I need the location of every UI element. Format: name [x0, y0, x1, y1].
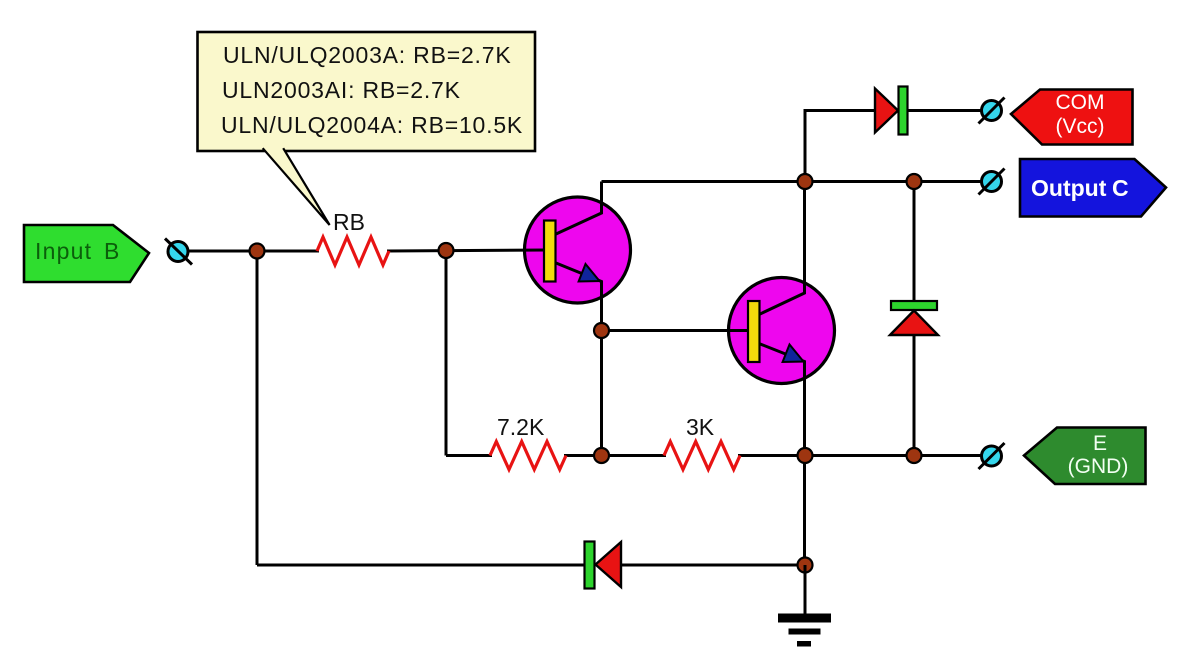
diode D2 cathode bar (output clamp zener): [891, 301, 937, 310]
junction node at input: [250, 244, 265, 259]
resistor RB zigzag: [317, 237, 389, 265]
svg-text:RB: RB: [333, 209, 365, 235]
wire COM branch riser and rail to diode D1: [805, 111, 874, 182]
junction node GND rail at 7.2K/3K: [594, 448, 609, 463]
flag label COM (Vcc): [1011, 90, 1133, 145]
diode D1 cathode bar: [899, 87, 908, 135]
wire input node vertical drop to bottom rail: [256, 251, 259, 565]
flag label Output C: [1020, 159, 1166, 217]
flag label Input B: [24, 225, 149, 282]
wire Q1 emitter down through Q2 base node to GND resistor rail: [556, 263, 602, 456]
transistor Q1 (Darlington input BJT): [525, 197, 631, 303]
svg-text:(Vcc): (Vcc): [1056, 115, 1105, 138]
junction node GND rail / zener bottom: [907, 448, 922, 463]
svg-text:B: B: [104, 238, 119, 264]
note callout tail: [263, 148, 330, 225]
diode D1 anode triangle (COM clamp diode): [875, 89, 898, 133]
transistor Q2 (Darlington output BJT): [729, 278, 835, 384]
junction node bottom rail / ground: [798, 558, 813, 573]
svg-text:ULN/ULQ2003A: RB=2.7K: ULN/ULQ2003A: RB=2.7K: [223, 42, 511, 68]
ground: [778, 565, 831, 647]
wire zener D2 branch upper: [913, 182, 916, 304]
wire GND rail segment 2 (between 7.2K and 3K): [564, 454, 666, 457]
wire input rail left segment: [189, 250, 319, 253]
wire GND rail segment 1: [446, 454, 492, 457]
wire Q1 collector up to output rail: [556, 182, 602, 235]
wire GND rail segment 3 (3K to E terminal): [738, 454, 982, 457]
wire zener D2 branch lower: [913, 334, 916, 456]
wire output rail (collector bus to Output terminal): [602, 180, 982, 183]
diode D3 cathode bar (input clamp diode): [585, 542, 595, 589]
svg-text:COM: COM: [1056, 91, 1105, 114]
terminal pin COM: [979, 98, 1005, 124]
junction node output rail / zener riser: [907, 174, 922, 189]
terminal pin Input B: [165, 239, 192, 265]
svg-text:ULN/ULQ2004A: RB=10.5K: ULN/ULQ2004A: RB=10.5K: [221, 112, 523, 138]
terminal pin Output C: [979, 169, 1005, 195]
resistor R3 3K zigzag: [664, 442, 740, 470]
svg-text:(GND): (GND): [1068, 455, 1129, 478]
diode D3 anode triangle: [596, 542, 622, 587]
diode D2 anode triangle: [890, 311, 938, 336]
flag label E (GND): [1024, 428, 1146, 485]
wire Q2 collector riser: [759, 182, 805, 315]
transistor Q1 emitter arrowhead: [579, 264, 600, 282]
svg-text:C: C: [1112, 175, 1129, 201]
svg-text:ULN2003AI: RB=2.7K: ULN2003AI: RB=2.7K: [222, 77, 461, 103]
wire RB output node vertical drop to 7.2K rail: [445, 251, 448, 456]
junction node GND rail / Q2 emitter: [798, 448, 813, 463]
wire Q2 base from node: [602, 329, 751, 332]
wire bottom rail left of D3: [257, 564, 585, 567]
svg-text:7.2K: 7.2K: [497, 414, 545, 440]
transistor Q2 base plate: [748, 301, 760, 362]
svg-text:Input: Input: [35, 238, 92, 264]
resistor R2 7.2K zigzag: [490, 442, 566, 470]
junction node RB output: [439, 243, 454, 258]
wire bottom rail right of D3: [621, 564, 805, 567]
note callout box ULN/ULQ RB values: [198, 32, 536, 225]
wire input rail right segment (RB to Q1 base): [387, 250, 546, 251]
svg-text:E: E: [1093, 432, 1107, 455]
wire Q2 emitter down to GND rail and bottom rail: [759, 344, 805, 566]
junction node output rail / COM riser: [798, 174, 813, 189]
svg-text:Output: Output: [1031, 175, 1107, 201]
junction node Q2 base: [594, 323, 609, 338]
transistor Q2 emitter arrowhead: [783, 345, 804, 363]
wire D1 cathode to COM terminal: [908, 109, 982, 112]
terminal pin E: [979, 443, 1005, 469]
svg-text:3K: 3K: [686, 414, 715, 440]
transistor Q1 base plate: [544, 221, 556, 282]
